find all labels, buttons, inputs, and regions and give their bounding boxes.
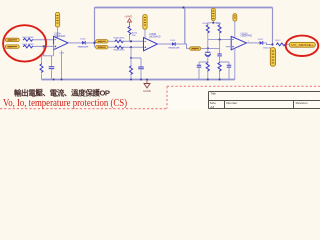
wire stem into U101A	[234, 21, 236, 37]
svg-text:R109: R109	[216, 23, 222, 25]
resistor R100	[23, 38, 33, 41]
resistor R111	[218, 62, 221, 80]
wire staircase down	[131, 47, 141, 58]
resistor R102	[40, 56, 43, 80]
wire to port	[286, 43, 290, 45]
power net +24VD	[124, 15, 132, 26]
power jumper pill above U100A	[55, 12, 59, 27]
svg-text:D101: D101	[170, 40, 176, 42]
wire loop top	[42, 55, 54, 57]
svg-text:Title: Title	[210, 91, 216, 95]
port CS- pill	[5, 45, 19, 49]
title block background	[167, 87, 320, 111]
junction	[130, 40, 132, 42]
ground symbol	[144, 80, 150, 89]
port VO_SENSE pill	[289, 42, 315, 47]
capacitor C105	[217, 54, 221, 62]
resistor R106	[128, 26, 131, 41]
junction on top rail	[182, 6, 184, 8]
junction node	[93, 42, 95, 44]
junction node	[207, 47, 209, 49]
wire from op-amp minus down	[53, 44, 55, 56]
wire vertical through node	[207, 40, 209, 53]
svg-text:RB161M-30TR: RB161M-30TR	[78, 46, 89, 48]
op-amp U101A	[231, 36, 246, 49]
capacitor C101	[138, 58, 144, 80]
wire stem and tee	[208, 21, 220, 23]
wire diode to node	[85, 42, 94, 44]
junction	[130, 57, 132, 59]
resistor R107	[130, 58, 133, 80]
wire row1 to op-amp	[33, 39, 54, 41]
junction	[219, 39, 221, 41]
junction node	[271, 43, 273, 45]
wire vertical middle drop	[184, 8, 186, 45]
svg-text:LM2904AD: LM2904AD	[149, 35, 161, 38]
wire pill to node	[201, 47, 220, 49]
port CS+ pill	[5, 38, 19, 42]
svg-text:R112: R112	[275, 40, 281, 42]
svg-text:+24VD: +24VD	[124, 15, 132, 19]
capacitor C100	[49, 56, 55, 80]
wire U100B output	[158, 43, 173, 45]
resistor R101	[23, 45, 33, 48]
resistor R104	[115, 40, 124, 43]
wire V+ stem into U100A	[57, 27, 59, 39]
svg-text:D102: D102	[258, 39, 264, 41]
wire U100A output	[68, 42, 82, 44]
op-amp U100B	[144, 38, 158, 51]
pill jumper row1	[96, 40, 108, 44]
junction dots on rail	[53, 79, 55, 81]
pin + mark	[55, 46, 57, 48]
svg-text:C101: C101	[59, 53, 65, 55]
svg-text:VO_SENSE+: VO_SENSE+	[291, 43, 314, 47]
capacitor C104	[220, 62, 232, 80]
power jumper tall pill	[211, 8, 215, 20]
wire minus input line	[208, 39, 231, 41]
diode D101	[172, 42, 175, 46]
svg-text:Revision: Revision	[296, 101, 308, 105]
red dashed boundary bottom	[0, 108, 167, 110]
wire vertical tap	[61, 51, 63, 80]
svg-text:D100: D100	[80, 39, 86, 41]
svg-text:輸出電壓、電流、溫度保護OP: 輸出電壓、電流、溫度保護OP	[14, 88, 110, 98]
test point tall pill	[270, 48, 275, 67]
capacitor C103	[197, 62, 208, 80]
svg-text:RB161M-30TR: RB161M-30TR	[169, 48, 180, 50]
resistor R110	[206, 62, 209, 80]
wire stem into U100B	[144, 29, 146, 39]
svg-text:Vo, Io, temperature protection: Vo, Io, temperature protection (CS)	[3, 98, 127, 109]
wire top feedback rail	[95, 7, 273, 9]
junction	[130, 46, 132, 48]
red dashed boundary vertical	[166, 86, 168, 108]
red highlight ellipse right	[286, 36, 319, 56]
wire R105 to U100B	[124, 46, 144, 48]
wire feedback to rail corner	[234, 48, 236, 79]
feedback drop from row2 node	[43, 46, 45, 55]
resistor R105	[115, 46, 124, 49]
wire vertical left drop	[94, 8, 96, 48]
svg-text:10K: 10K	[132, 35, 136, 37]
wire row2 to op-amp	[33, 45, 54, 47]
svg-text:Number: Number	[226, 101, 237, 105]
diode D100	[82, 41, 85, 45]
pin + mark	[232, 46, 234, 48]
svg-text:A3: A3	[210, 105, 214, 109]
svg-text:R105 10K/1%: R105 10K/1%	[114, 50, 125, 52]
resistor R109	[218, 23, 221, 40]
wire diode to vertical	[175, 44, 189, 48]
pin - mark	[232, 39, 234, 41]
power jumper pill above U100B	[143, 15, 147, 30]
capacitor C102 polarized	[205, 52, 211, 62]
paper background	[0, 0, 320, 110]
junction node row2	[43, 45, 45, 47]
resistor R112	[276, 43, 286, 46]
svg-text:AGND: AGND	[143, 89, 151, 93]
resistor R108	[206, 23, 209, 40]
red highlight ellipse left	[3, 25, 46, 61]
title block frame	[209, 92, 320, 109]
wire pill to R104	[108, 40, 115, 42]
wire vertical R109 node down	[219, 40, 221, 54]
power jumper short pill	[233, 14, 237, 21]
pin + mark	[145, 46, 147, 48]
pin - mark	[145, 40, 147, 42]
wire vertical right drop	[272, 8, 274, 45]
wire R104 to U100B	[124, 40, 144, 42]
diode D102	[260, 41, 263, 45]
svg-text:LM2904AD: LM2904AD	[241, 35, 253, 38]
red dashed boundary right	[167, 85, 320, 87]
op-amp U100A	[54, 36, 69, 49]
svg-text:R104 10K/1%: R104 10K/1%	[114, 38, 125, 40]
wire bottom ground rail	[42, 79, 235, 81]
pin - mark	[55, 39, 57, 41]
pill jumper JP14	[190, 47, 201, 51]
pill jumper row2	[96, 46, 108, 50]
wire U101A output	[247, 42, 260, 44]
wire diode to node	[263, 43, 273, 45]
wire pill to R105	[108, 46, 115, 48]
wire plus input stub	[226, 46, 231, 48]
